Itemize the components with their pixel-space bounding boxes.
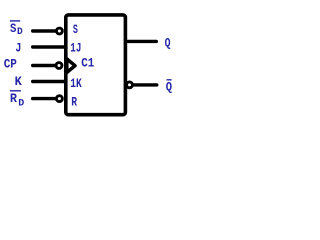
svg-text:CP: CP xyxy=(4,58,17,72)
wire: SD input stub xyxy=(33,29,56,32)
wire: CP clock input stub xyxy=(33,64,56,67)
svg-text:K: K xyxy=(15,75,23,89)
svg-text:D: D xyxy=(18,98,24,109)
inversion bubble: RD input xyxy=(56,96,62,102)
svg-text:1K: 1K xyxy=(70,77,82,91)
label Qbar (output) xyxy=(166,80,173,95)
svg-text:1J: 1J xyxy=(70,42,81,56)
svg-text:Q: Q xyxy=(166,80,173,94)
inversion bubble: CP input xyxy=(56,63,62,69)
wire: J input stub xyxy=(33,45,66,48)
inversion bubble: SD input xyxy=(56,28,62,34)
svg-text:S: S xyxy=(10,22,17,36)
svg-text:R: R xyxy=(71,96,77,110)
svg-text:R: R xyxy=(10,92,18,106)
svg-text:Q: Q xyxy=(165,37,171,51)
wire: Qbar output stub xyxy=(134,83,157,86)
svg-text:D: D xyxy=(17,27,23,38)
wire: K input stub xyxy=(33,80,66,83)
svg-text:S: S xyxy=(73,23,78,37)
flip-flop body U1 xyxy=(66,15,126,115)
dynamic-input triangle (clock edge indicator) xyxy=(67,59,75,73)
wire: RD input stub xyxy=(33,97,56,100)
label RD-bar (input) xyxy=(10,91,24,110)
inversion bubble: Qbar output xyxy=(127,82,133,88)
svg-text:J: J xyxy=(15,41,21,55)
svg-text:C1: C1 xyxy=(81,57,94,71)
wire: Q output stub xyxy=(127,40,156,43)
label SD-bar (input) xyxy=(10,21,23,38)
